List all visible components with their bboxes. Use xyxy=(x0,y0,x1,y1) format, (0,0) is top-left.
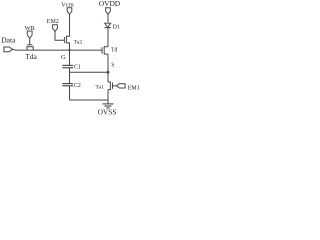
svg-text:OVSS: OVSS xyxy=(98,108,117,117)
svg-text:D1: D1 xyxy=(113,24,120,30)
svg-text:EM2: EM2 xyxy=(47,19,59,25)
port OVDD xyxy=(106,8,111,15)
node junction dot on S rail xyxy=(107,71,110,74)
port Data xyxy=(4,47,13,52)
svg-text:C2: C2 xyxy=(74,83,81,89)
wire: Td source down S rail xyxy=(107,54,109,82)
port WR xyxy=(27,31,32,38)
wire: rail down to C2 xyxy=(69,72,71,83)
svg-text:WR: WR xyxy=(25,25,36,32)
capacitor C1 xyxy=(62,65,73,72)
port Vcm xyxy=(67,8,72,15)
node G junction dot xyxy=(68,49,70,51)
transistor Td xyxy=(102,46,108,54)
wire: net B from C1 bottom to S rail xyxy=(70,71,109,73)
wire: diode to Td drain xyxy=(107,28,109,47)
transistor Ta2 xyxy=(64,35,69,44)
wire: net C bottom from C2 to ground xyxy=(70,99,109,101)
svg-text:EM1: EM1 xyxy=(128,85,140,91)
wire: EM2 to Ta2 gate xyxy=(55,31,64,40)
svg-text:Data: Data xyxy=(1,35,16,44)
diode D1 xyxy=(105,23,111,27)
svg-text:Ta1: Ta1 xyxy=(95,85,104,91)
wire: Vcm rail down to Ta2 xyxy=(69,14,71,36)
svg-text:Tda: Tda xyxy=(25,52,37,61)
wire: Ta2 source down through G node to C1 xyxy=(69,43,71,66)
transistor Ta1 xyxy=(108,82,117,101)
svg-text:G: G xyxy=(61,54,66,61)
capacitor C2 xyxy=(62,84,73,100)
port EM2 xyxy=(53,25,58,32)
svg-text:S: S xyxy=(111,63,114,69)
svg-text:Td: Td xyxy=(111,48,118,54)
transistor Tda xyxy=(26,38,33,50)
svg-text:Ta2: Ta2 xyxy=(74,39,83,45)
svg-text:Vcm: Vcm xyxy=(61,1,73,8)
svg-text:OVDD: OVDD xyxy=(99,0,121,8)
wire: data row horizontal net xyxy=(13,48,102,51)
wire: OVDD rail to diode xyxy=(107,14,109,23)
ground OVSS xyxy=(103,100,114,108)
port EM1 xyxy=(117,84,126,88)
svg-text:C1: C1 xyxy=(74,64,81,70)
